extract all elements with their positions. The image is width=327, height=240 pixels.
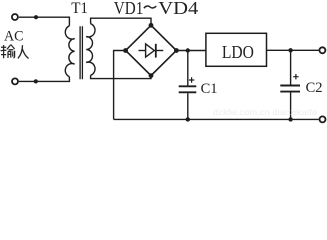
svg-text:VD4: VD4	[158, 0, 198, 18]
svg-text:VD1: VD1	[114, 0, 144, 18]
svg-text:T1: T1	[71, 0, 88, 17]
入	[18, 45, 29, 58]
node dot bridge right	[174, 48, 179, 53]
svg-text:C2: C2	[306, 80, 323, 96]
svg-text:LDO: LDO	[222, 42, 254, 62]
diode triangle	[146, 44, 155, 57]
svg-text:AC: AC	[4, 29, 24, 45]
俞 body	[8, 51, 15, 58]
AC input terminal top	[12, 14, 18, 20]
capacitor C2 plates	[280, 86, 300, 92]
transformer T1 secondary winding	[86, 24, 95, 76]
svg-text:C1: C1	[201, 81, 218, 97]
node dot C1 bottom	[186, 117, 190, 121]
capacitor C1 top lead	[187, 51, 189, 86]
node dot top-left	[34, 15, 38, 19]
node dot bridge bottom	[149, 73, 154, 78]
svg-text:dzkfw.com.cn dianzikaifa: dzkfw.com.cn dianzikaifa	[213, 107, 317, 117]
wire bridge right to LDO	[176, 50, 206, 52]
C2 plus sign	[293, 74, 298, 79]
node dot bridge top	[149, 23, 154, 28]
node dot bridge left	[123, 48, 128, 53]
C1 plus sign	[189, 77, 194, 82]
diode cathode lead	[156, 50, 164, 52]
diode VD inside bridge: anode lead	[139, 50, 146, 52]
label 输入 (drawn strokes)	[1, 45, 29, 59]
transformer T1 core	[80, 26, 82, 79]
capacitor C2 top lead	[290, 50, 292, 84]
capacitor C2 bottom lead	[290, 93, 292, 120]
wire bridge left to ground rail	[114, 51, 126, 120]
bridge rectifier diamond	[126, 25, 177, 75]
wire top-left	[19, 17, 70, 26]
车 radical	[1, 45, 7, 58]
LDO box	[206, 33, 267, 66]
transformer T1 primary winding	[65, 26, 74, 77]
capacitor C1 plates	[179, 86, 197, 92]
俞 roof	[7, 45, 15, 50]
DC output terminal bottom	[320, 116, 326, 122]
node dot C2 top	[288, 48, 292, 52]
node dot C2 bottom	[288, 117, 292, 121]
wire secondary top to bridge	[91, 18, 151, 25]
diode cathode bar	[155, 44, 157, 58]
AC input terminal bottom	[12, 78, 18, 84]
DC output terminal top	[319, 47, 325, 53]
wire secondary bottom to bridge	[91, 75, 151, 78]
node dot bottom-left	[34, 79, 38, 83]
node dot C1 top	[186, 48, 190, 52]
capacitor C1 bottom lead	[187, 93, 189, 119]
wire LDO to output	[267, 49, 319, 51]
wire bottom-left	[19, 77, 70, 82]
bottom rail	[114, 118, 319, 120]
